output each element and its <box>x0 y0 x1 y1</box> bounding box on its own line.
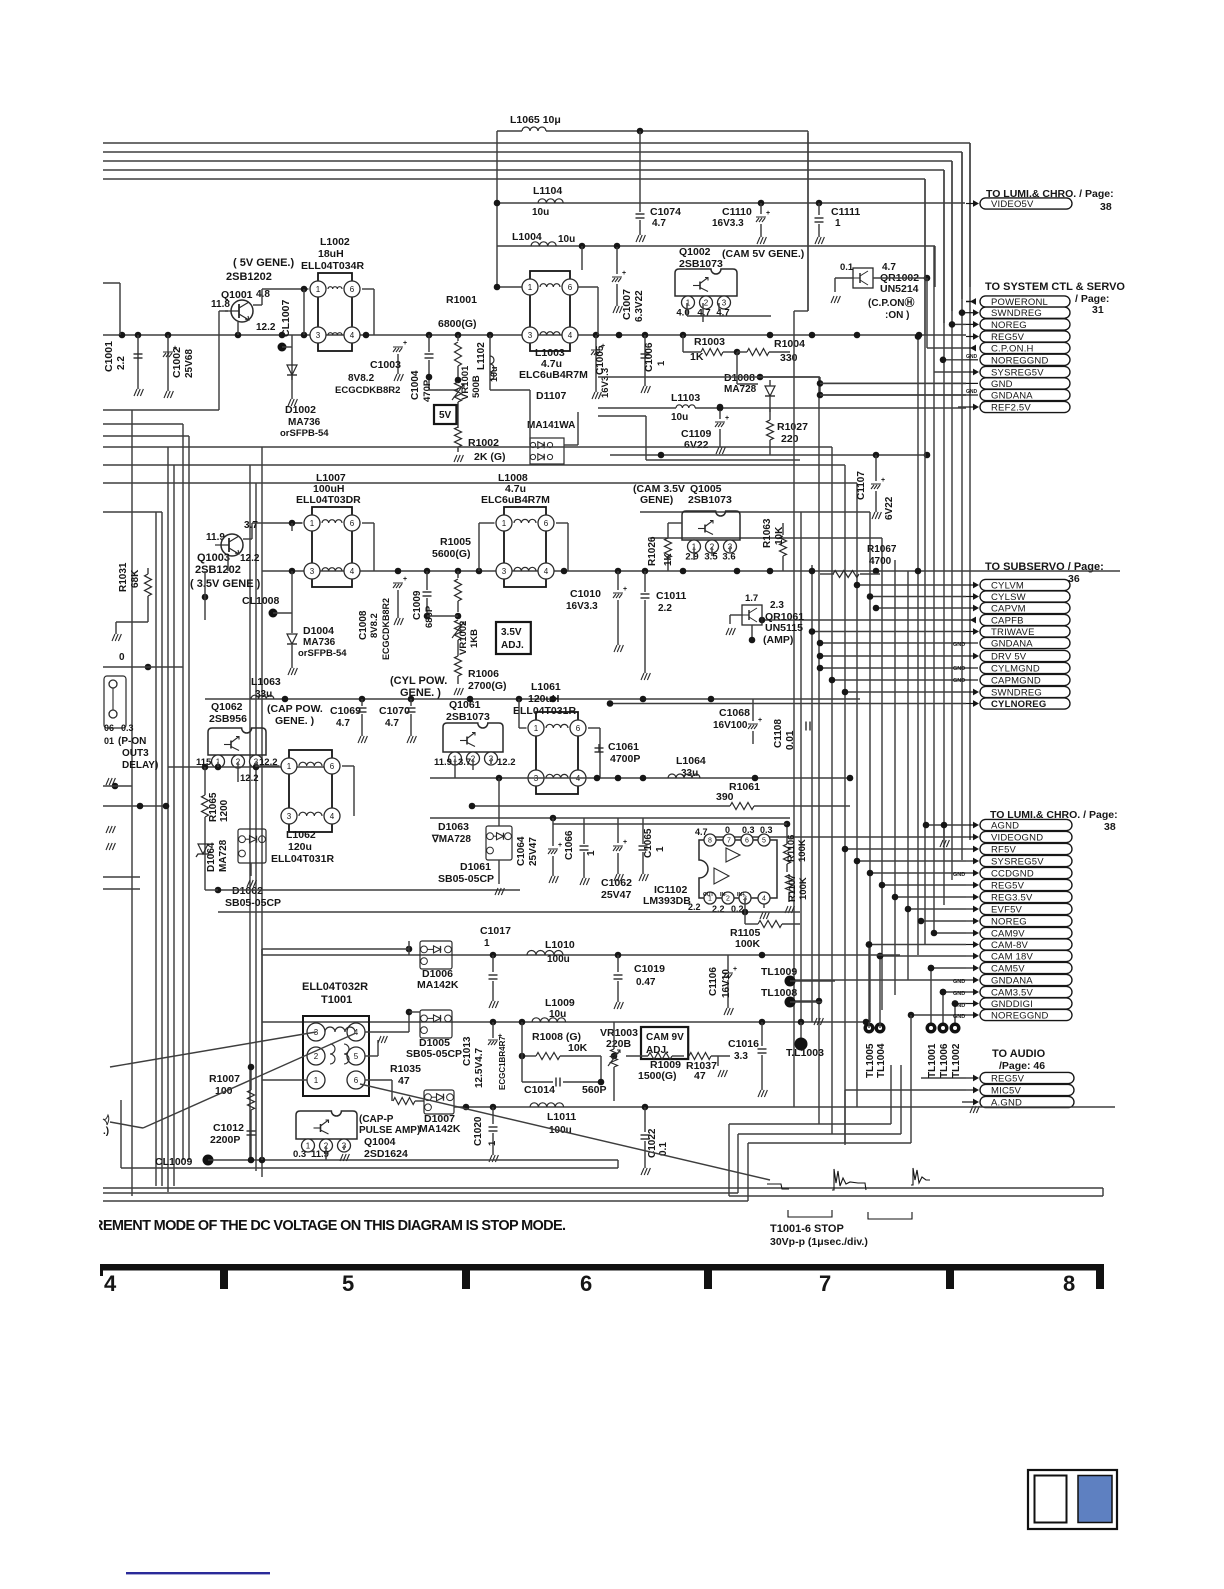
capacitor C1111 <box>818 203 820 215</box>
page indicator blue cell <box>1078 1476 1112 1523</box>
resistor R1009 1500 <box>648 1053 672 1060</box>
resistor R1037 47 <box>689 1053 711 1060</box>
wire diag C <box>360 1084 770 1180</box>
waveform bracket 2 <box>868 1212 912 1219</box>
svg-text:2K (G): 2K (G) <box>474 451 506 463</box>
svg-text:SYSREG5V: SYSREG5V <box>991 857 1044 868</box>
wire row 815 <box>430 817 790 819</box>
svg-text:C1010: C1010 <box>570 588 601 600</box>
wire cyl row top <box>205 698 860 700</box>
wire L1010 row <box>262 954 900 956</box>
svg-text:2: 2 <box>314 1052 319 1061</box>
svg-text:C1006: C1006 <box>644 342 655 372</box>
footer blue rule <box>126 1572 270 1574</box>
svg-text:/Page: 46: /Page: 46 <box>999 1060 1045 1072</box>
svg-text:12.2: 12.2 <box>240 553 260 564</box>
svg-text:1: 1 <box>316 285 321 294</box>
svg-text:220B: 220B <box>606 1038 632 1050</box>
capacitor C1003 <box>393 347 403 352</box>
svg-text:TL1006: TL1006 <box>939 1043 950 1078</box>
label 5V box <box>434 405 456 424</box>
svg-text:L1010: L1010 <box>545 939 575 951</box>
wire diag B <box>143 1033 356 1128</box>
svg-text:VR1001: VR1001 <box>460 365 471 400</box>
svg-text:C1013: C1013 <box>462 1036 473 1066</box>
svg-text:ELL04T034R: ELL04T034R <box>301 260 364 272</box>
svg-text:C1003: C1003 <box>370 359 401 371</box>
svg-text:LM393DB: LM393DB <box>643 895 691 907</box>
svg-text:L1064: L1064 <box>676 755 706 767</box>
svg-text:C1061: C1061 <box>608 741 639 753</box>
capacitor C1014 560P <box>555 1078 557 1087</box>
svg-text:1200: 1200 <box>219 799 230 822</box>
svg-text:CL1008: CL1008 <box>242 595 280 607</box>
svg-text:R1005: R1005 <box>440 536 471 548</box>
svg-text:SWNDREG: SWNDREG <box>991 688 1042 699</box>
svg-text:16V3.3: 16V3.3 <box>712 218 744 229</box>
diode D1002 <box>287 365 297 375</box>
svg-text:0.47: 0.47 <box>636 977 656 988</box>
svg-text:01: 01 <box>104 736 114 746</box>
svg-text:C1108: C1108 <box>773 719 784 748</box>
wire top bus 4 <box>103 160 952 162</box>
svg-text:(CYL POW.: (CYL POW. <box>390 675 447 687</box>
connector SWNDREG <box>962 312 966 314</box>
svg-text:2SB1073: 2SB1073 <box>688 494 732 506</box>
svg-text:DRV 5V: DRV 5V <box>991 652 1027 663</box>
svg-text:R1061: R1061 <box>729 781 760 793</box>
capacitor C1006 <box>644 335 646 386</box>
svg-text:120uH: 120uH <box>528 693 560 705</box>
ruler end left <box>100 1264 103 1276</box>
svg-text:25V47: 25V47 <box>528 837 539 866</box>
svg-text:3: 3 <box>310 567 315 576</box>
connector GNDANA <box>820 642 966 644</box>
svg-text:100u: 100u <box>547 954 570 965</box>
wire q1061 <box>454 759 456 778</box>
resistor R1106 100K <box>784 844 791 864</box>
svg-text:GND: GND <box>953 1003 965 1009</box>
wire staircase drops left <box>728 1124 730 1196</box>
svg-text:Q1003: Q1003 <box>197 552 230 564</box>
wire GND stub riser <box>819 377 821 395</box>
svg-text:MA736: MA736 <box>303 637 336 648</box>
wire row 912 <box>218 911 800 913</box>
resistor R1065 1200 <box>202 795 209 817</box>
svg-text:MA142K: MA142K <box>419 1123 461 1135</box>
capacitor C1011 <box>644 571 646 592</box>
svg-text:R1001: R1001 <box>446 294 477 306</box>
svg-text:33u: 33u <box>255 689 272 700</box>
svg-text:3: 3 <box>316 331 321 340</box>
wire top bus 3 <box>103 151 962 153</box>
capacitor C1005 <box>595 335 597 392</box>
svg-text:3.7: 3.7 <box>244 520 258 531</box>
svg-text:6: 6 <box>350 285 355 294</box>
connector CYLSW <box>870 596 966 598</box>
terminal TL1005 TL1004 <box>864 1023 875 1034</box>
resistor R1105 100K <box>758 921 782 928</box>
svg-text:TL1001: TL1001 <box>927 1043 938 1078</box>
svg-text:6: 6 <box>576 724 581 733</box>
svg-text:16V100: 16V100 <box>713 720 748 731</box>
svg-text:1K: 1K <box>663 552 674 566</box>
svg-text:POWERONL: POWERONL <box>991 297 1048 308</box>
ground at A.GND <box>970 1106 979 1113</box>
svg-text:(CAM 5V GENE.): (CAM 5V GENE.) <box>722 248 804 260</box>
transformer L1062 <box>289 750 332 832</box>
svg-text:500B: 500B <box>471 375 482 398</box>
svg-text:CYLMGND: CYLMGND <box>991 664 1040 675</box>
wire REF2.5V L1103 row <box>598 407 676 409</box>
connector CAPVM <box>876 607 966 609</box>
connector NOREG <box>952 323 966 325</box>
wire C.P.ON.H riser <box>926 278 928 348</box>
svg-text:R1031: R1031 <box>118 562 129 592</box>
svg-text:3.3: 3.3 <box>734 1051 748 1062</box>
svg-text:2.2: 2.2 <box>658 603 672 614</box>
svg-text:CL1007: CL1007 <box>280 299 292 337</box>
svg-text:100K: 100K <box>797 839 808 862</box>
svg-text:ECGC1BR4R7: ECGC1BR4R7 <box>498 1036 507 1090</box>
svg-text:11.9: 11.9 <box>434 757 452 768</box>
svg-text:2700(G): 2700(G) <box>468 680 507 692</box>
connector C.P.ON.H <box>927 347 966 349</box>
svg-text:CAM 18V: CAM 18V <box>991 952 1034 963</box>
svg-text:C1069: C1069 <box>330 705 361 717</box>
svg-text:SB05-05CP: SB05-05CP <box>406 1048 462 1060</box>
capacitor C1013 <box>492 1022 494 1038</box>
svg-text:REG3.5V: REG3.5V <box>991 893 1033 904</box>
svg-text:REG5V: REG5V <box>991 881 1025 892</box>
svg-text:CYLNOREG: CYLNOREG <box>991 699 1046 710</box>
svg-text:SB05-05CP: SB05-05CP <box>438 873 494 885</box>
wire diag A <box>110 1032 316 1067</box>
svg-text:12.2: 12.2 <box>256 322 276 333</box>
svg-text:10u: 10u <box>671 412 688 423</box>
svg-text:GND: GND <box>953 872 965 878</box>
capacitor C1065 <box>639 845 648 847</box>
waveform trace 3 <box>911 1168 930 1185</box>
capacitor C1061 4700P <box>598 744 600 752</box>
svg-text:R1004: R1004 <box>774 338 805 350</box>
connector A.GND <box>962 1101 966 1103</box>
svg-text:NOREG: NOREG <box>991 917 1027 928</box>
svg-text:D1064: D1064 <box>206 842 217 872</box>
capacitor C1009 680P <box>426 571 428 590</box>
svg-text:NOREGGND: NOREGGND <box>991 1011 1049 1022</box>
svg-text:1: 1 <box>484 938 490 949</box>
wire cyl out row <box>430 777 850 779</box>
svg-text:Q1062: Q1062 <box>211 701 243 713</box>
wire top bus 6 <box>103 178 925 180</box>
connector CAM3.5V <box>943 991 966 993</box>
diode block D1005 <box>420 1010 452 1038</box>
wire tl1008 stub <box>791 1000 819 1002</box>
svg-text:TL1004: TL1004 <box>876 1043 887 1078</box>
svg-text:6: 6 <box>580 1271 592 1296</box>
svg-text:L1063: L1063 <box>251 676 281 688</box>
ruler tick 1 <box>220 1264 228 1289</box>
svg-text:C1020: C1020 <box>473 1116 484 1146</box>
capacitor C1107 <box>875 455 877 481</box>
wire bottom bus group <box>103 1187 1103 1189</box>
svg-text:16V3.3: 16V3.3 <box>566 601 598 612</box>
svg-text:1: 1 <box>534 724 539 733</box>
terminal TL1001 TL1006 TL1002 <box>926 1023 937 1034</box>
wire left row 806 <box>103 805 168 807</box>
svg-text:4.7: 4.7 <box>697 308 710 319</box>
svg-text:C1066: C1066 <box>564 830 575 860</box>
svg-text:ECGCDKB8R2: ECGCDKB8R2 <box>381 598 391 660</box>
svg-text:GENE): GENE) <box>640 494 673 506</box>
svg-text:6: 6 <box>568 283 573 292</box>
connector GNDDIGI <box>955 1003 966 1005</box>
svg-text:T1001-6 STOP: T1001-6 STOP <box>770 1223 844 1235</box>
svg-text:3: 3 <box>502 567 507 576</box>
svg-text:CL1009: CL1009 <box>155 1156 193 1168</box>
svg-text:DELAY): DELAY) <box>122 760 158 771</box>
connector REG5V <box>966 336 976 338</box>
svg-text:(AMP): (AMP) <box>763 634 793 646</box>
svg-text:R1065: R1065 <box>208 792 219 822</box>
resistor R1063 10K <box>782 523 784 535</box>
connector SYSREG5V <box>857 860 966 862</box>
svg-text:REG5V: REG5V <box>991 332 1025 343</box>
wire left rows 877 889 <box>103 876 140 878</box>
wire 5V rail <box>103 334 966 336</box>
svg-text:11.8: 11.8 <box>211 299 230 310</box>
capacitor C1012 2200P <box>247 1130 256 1132</box>
svg-text:GND: GND <box>966 354 978 360</box>
connector GNDANA <box>791 979 966 981</box>
svg-text:4700P: 4700P <box>610 753 640 765</box>
svg-text:D1002: D1002 <box>285 404 316 416</box>
svg-text:orSFPB-54: orSFPB-54 <box>280 428 329 439</box>
svg-text:GND: GND <box>953 642 965 648</box>
svg-text:3.5V: 3.5V <box>501 627 522 638</box>
svg-text:EVF5V: EVF5V <box>991 905 1023 916</box>
svg-text:3: 3 <box>528 331 533 340</box>
svg-text:CAM3.5V: CAM3.5V <box>991 988 1034 999</box>
svg-text:CYLVM: CYLVM <box>991 581 1024 592</box>
svg-text:+: + <box>403 576 407 583</box>
svg-text:L1065 10μ: L1065 10μ <box>510 114 561 126</box>
svg-text:R1063: R1063 <box>762 518 773 548</box>
svg-text:C1001: C1001 <box>103 341 115 372</box>
svg-text:C1110: C1110 <box>722 206 752 218</box>
svg-text:+: + <box>733 966 737 973</box>
svg-text:R1006: R1006 <box>468 668 499 680</box>
connector SWNDREG <box>845 691 966 693</box>
svg-text:L1102: L1102 <box>476 342 487 370</box>
svg-text:VIDEOGND: VIDEOGND <box>991 833 1043 844</box>
terminal TL1003 <box>800 1022 802 1042</box>
svg-text:C1062: C1062 <box>601 877 632 889</box>
svg-text:R1106: R1106 <box>786 835 797 862</box>
resistor R1031 68K <box>145 574 152 596</box>
svg-text:ELL04T031R: ELL04T031R <box>513 705 576 717</box>
svg-text:+: + <box>881 477 885 484</box>
svg-text:SWNDREG: SWNDREG <box>991 308 1042 319</box>
svg-text:7: 7 <box>819 1271 831 1296</box>
connector REG5V <box>882 884 966 886</box>
label 3.5V ADJ box <box>496 622 531 654</box>
svg-text:6: 6 <box>354 1076 359 1085</box>
svg-text:GND: GND <box>966 389 978 395</box>
svg-text:0.3: 0.3 <box>293 1149 306 1160</box>
ruler bar <box>100 1264 1103 1271</box>
capacitor C1002 <box>167 335 169 391</box>
resistor R1026 1K <box>667 560 669 571</box>
page indicator white cell <box>1035 1476 1067 1523</box>
node CL1007 <box>291 335 293 380</box>
svg-text:ELL04T032R: ELL04T032R <box>302 981 368 993</box>
svg-text:GND: GND <box>953 1014 965 1020</box>
svg-text:R1007: R1007 <box>209 1073 240 1085</box>
svg-text:+: + <box>403 340 407 347</box>
resistor R1027 220 <box>767 420 774 440</box>
svg-text:1500(G): 1500(G) <box>638 1070 677 1082</box>
svg-text:GENE. ): GENE. ) <box>400 687 441 699</box>
svg-text:+: + <box>623 839 627 846</box>
svg-text:100K: 100K <box>735 938 761 950</box>
svg-text:C1064: C1064 <box>516 836 527 866</box>
svg-text:R1003: R1003 <box>694 336 725 348</box>
connector POWERONL <box>966 301 970 303</box>
capacitor C1106 <box>727 955 729 970</box>
svg-text:0.3: 0.3 <box>742 825 755 835</box>
connector NOREGGND <box>943 359 966 361</box>
svg-text:3: 3 <box>722 298 727 307</box>
svg-text:L1104: L1104 <box>533 185 562 197</box>
svg-text:Q1004: Q1004 <box>364 1136 396 1148</box>
wire cam-8v riser TL1005 <box>868 945 870 1024</box>
svg-text:6.3V22: 6.3V22 <box>634 290 645 322</box>
inductor L1104 <box>538 199 563 203</box>
svg-text:38: 38 <box>1104 821 1116 833</box>
wire row 416 <box>598 415 646 417</box>
svg-text:2SB1073: 2SB1073 <box>679 258 723 270</box>
capacitor C1066 <box>580 845 589 847</box>
svg-text:MA736: MA736 <box>288 417 321 428</box>
connector CCDGND <box>870 872 966 874</box>
inductor L1102 <box>489 335 491 390</box>
connector DRV 5V <box>820 655 966 657</box>
svg-text:D1107: D1107 <box>536 390 567 402</box>
transistor QR1002 UN5214 <box>853 268 873 288</box>
svg-text:GND: GND <box>953 678 965 684</box>
wire right bundle to bottom <box>1102 1188 1104 1196</box>
svg-text:R1067: R1067 <box>867 544 897 555</box>
connector CAM5V <box>931 967 966 969</box>
svg-text:VIDEO5V: VIDEO5V <box>991 199 1034 210</box>
capacitor C1109 <box>717 405 724 412</box>
wire bus row2 b <box>250 464 845 466</box>
svg-text:11.9: 11.9 <box>206 532 225 543</box>
svg-text:31: 31 <box>1092 304 1104 316</box>
svg-text:CAPFB: CAPFB <box>991 616 1024 627</box>
svg-text:VR1002: VR1002 <box>458 621 469 655</box>
connector CYLNOREG <box>610 703 966 705</box>
svg-text:SYSREG5V: SYSREG5V <box>991 368 1044 379</box>
svg-text:100K: 100K <box>798 877 809 900</box>
wire Q1001 base feed <box>103 409 219 411</box>
svg-text:3.7: 3.7 <box>458 757 471 768</box>
connector CYLVM <box>857 584 966 586</box>
wire CL1009 row <box>208 1159 560 1161</box>
svg-text:12.2: 12.2 <box>497 757 516 768</box>
capacitor C1074 <box>639 131 641 212</box>
svg-text:1: 1 <box>310 519 315 528</box>
connector CAM9V <box>934 932 966 934</box>
svg-text:L1062: L1062 <box>286 829 316 841</box>
diode block D1006 <box>420 941 452 969</box>
svg-text:1.7: 1.7 <box>745 593 758 604</box>
svg-text:NOREG: NOREG <box>991 320 1027 331</box>
svg-text:AGND: AGND <box>991 821 1019 832</box>
svg-text:C1011: C1011 <box>656 590 687 602</box>
svg-text:10K: 10K <box>568 1042 588 1054</box>
svg-text:MIC5V: MIC5V <box>991 1086 1021 1097</box>
page indicator box <box>1028 1470 1117 1529</box>
label CAM 9V ADJ box <box>641 1027 688 1059</box>
svg-text:ECGCDKB8R2: ECGCDKB8R2 <box>335 385 400 396</box>
svg-text:120u: 120u <box>288 841 312 853</box>
connector REF2.5V <box>958 406 966 408</box>
svg-text:.): .) <box>103 1126 109 1137</box>
svg-text:GND: GND <box>953 979 965 985</box>
connector REG3.5V <box>895 896 966 898</box>
svg-text:6V22: 6V22 <box>884 496 895 520</box>
svg-text:R1027: R1027 <box>777 421 808 433</box>
svg-text:7: 7 <box>727 838 731 845</box>
transistor Q1062 <box>208 728 266 755</box>
wire vertical from L1065 line <box>807 131 809 311</box>
svg-text:R1107: R1107 <box>787 875 798 902</box>
svg-text:1: 1 <box>487 1140 498 1146</box>
diode block D1062 <box>238 829 266 863</box>
diode block D1061 <box>486 826 512 860</box>
svg-text:390: 390 <box>716 791 734 803</box>
svg-text:4: 4 <box>104 1271 117 1296</box>
svg-text:D1004: D1004 <box>303 625 334 637</box>
capacitor C1020 <box>492 1107 494 1124</box>
connector CAM-8V <box>869 944 966 946</box>
svg-text:ADJ.: ADJ. <box>501 640 524 651</box>
svg-text:8: 8 <box>708 838 712 845</box>
wire D1107 feed to riser <box>598 376 820 378</box>
svg-text:1: 1 <box>502 519 507 528</box>
svg-text:GND: GND <box>953 666 965 672</box>
svg-text:4: 4 <box>330 812 335 821</box>
wire bus row2 c <box>256 482 857 484</box>
svg-text:GND: GND <box>991 379 1013 390</box>
ruler tick 4 <box>946 1264 954 1289</box>
svg-text:0.3: 0.3 <box>121 723 134 733</box>
wire cam3.5v riser TL1006 <box>942 992 944 1023</box>
svg-text:560P: 560P <box>582 1084 607 1096</box>
svg-text:L1061: L1061 <box>531 681 561 693</box>
svg-text:4.8: 4.8 <box>256 289 270 300</box>
svg-text:REF2.5V: REF2.5V <box>991 403 1031 414</box>
svg-text:CAPVM: CAPVM <box>991 604 1026 615</box>
svg-text:(CAP POW.: (CAP POW. <box>267 703 323 715</box>
svg-text:R1035: R1035 <box>390 1063 421 1075</box>
svg-text:+: + <box>758 717 762 724</box>
svg-text:4: 4 <box>350 567 355 576</box>
waveform trace 1 <box>767 1184 789 1189</box>
